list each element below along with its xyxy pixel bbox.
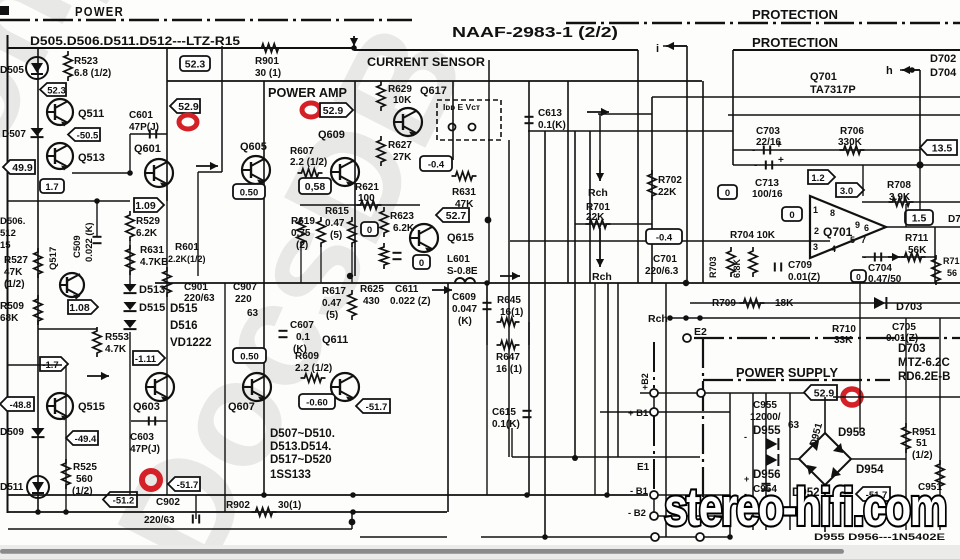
svg-text:(1/2): (1/2) [4, 279, 25, 290]
svg-text:430: 430 [363, 296, 380, 307]
svg-text:R615: R615 [325, 206, 349, 217]
svg-text:0.47/50: 0.47/50 [868, 274, 902, 285]
svg-text:D507: D507 [2, 129, 26, 140]
svg-text:220/63: 220/63 [184, 293, 215, 304]
wire output rail y283 [155, 282, 960, 284]
wire y205 vbe rail [300, 204, 420, 206]
wire vertical x264 [263, 81, 265, 495]
svg-text:i: i [656, 43, 659, 55]
svg-text:220/6.3: 220/6.3 [645, 266, 679, 277]
svg-text:C703: C703 [756, 126, 780, 137]
resistor R951 [902, 423, 910, 453]
svg-text:-0.4: -0.4 [428, 159, 445, 170]
svg-text:- B2: - B2 [628, 508, 646, 519]
wire h stub [900, 69, 920, 71]
svg-text:R601: R601 [175, 242, 199, 253]
wire y537 right [481, 536, 730, 538]
svg-text:47K: 47K [455, 199, 474, 210]
junction 912,70 [909, 67, 915, 73]
wire vertical x618 [617, 283, 619, 457]
svg-text:0.75: 0.75 [291, 228, 311, 239]
terminal 700,537 [696, 533, 704, 541]
svg-text:Q603: Q603 [133, 401, 160, 413]
wire protection y97 [652, 96, 960, 98]
flag -51.7 mid [356, 399, 390, 413]
flag 1.08 [68, 300, 98, 314]
wire y303 [690, 302, 960, 304]
flag 49.9 [3, 160, 35, 174]
capacitor C615 [523, 411, 532, 417]
transistor Q609 body [331, 158, 359, 187]
transistor Q617 [394, 108, 422, 137]
svg-text:560: 560 [76, 474, 93, 485]
wire x593 v [594, 283, 596, 495]
flag 0 e [851, 270, 866, 282]
wire x654 [653, 397, 655, 408]
resistor R525 [62, 459, 70, 489]
flag 1.5 [905, 210, 933, 225]
wire opamp out [886, 226, 960, 228]
wire x906 v [905, 204, 907, 227]
capacitor C509 [93, 237, 102, 243]
diode D515 [124, 302, 137, 311]
transistor Q605 [242, 156, 270, 185]
wire vertical x167 [166, 48, 168, 201]
flag 0.50 [233, 348, 266, 363]
svg-text:4.7KB: 4.7KB [140, 257, 168, 268]
svg-text:C611: C611 [395, 284, 419, 295]
wire x321 column [320, 246, 322, 283]
resistor R509 body [34, 295, 42, 325]
red mark 4 [843, 389, 861, 405]
wire top rail right [354, 49, 638, 51]
capacitor C611 body [393, 253, 402, 259]
svg-text:0.1(K): 0.1(K) [538, 120, 566, 131]
wire x167 column [166, 190, 168, 495]
svg-text:-: - [744, 432, 747, 442]
wire y495 right [658, 494, 730, 496]
wire y457 [512, 456, 700, 458]
resistor R625 body [380, 243, 388, 269]
arrow right mid [587, 108, 609, 116]
junction 527,495 [524, 492, 530, 498]
red mark 1 [179, 115, 197, 129]
wire y397 right [833, 396, 960, 398]
wire rch a stub [599, 114, 601, 160]
wire y516 [658, 515, 730, 517]
wire protection y114 left [598, 113, 652, 115]
wire x935 stub [934, 227, 936, 283]
wire vertical x489 [488, 60, 490, 283]
svg-text:-1.11: -1.11 [135, 354, 157, 365]
svg-text:Iᴅᴅ E Vᴄᴛ: Iᴅᴅ E Vᴄᴛ [443, 102, 480, 112]
svg-text:-: - [863, 252, 866, 263]
svg-text:15: 15 [0, 240, 11, 251]
flag -0.4 b [646, 229, 682, 244]
flag -1.11 [133, 351, 165, 365]
svg-text:6.8 (1/2): 6.8 (1/2) [74, 68, 111, 79]
svg-text:R529: R529 [136, 216, 160, 227]
wire jog [351, 512, 353, 529]
wire x790 supply [789, 393, 791, 530]
svg-text:-48.8: -48.8 [10, 400, 32, 411]
junction 686,283 [683, 280, 689, 286]
svg-text:68K: 68K [0, 313, 19, 324]
resistor R901 [258, 44, 283, 52]
wire x512 jog [511, 428, 513, 457]
svg-text:D515: D515 [170, 303, 198, 315]
svg-text:(K): (K) [458, 316, 472, 327]
wire y537 stub [360, 536, 447, 538]
svg-text:Q607: Q607 [228, 401, 255, 413]
svg-text:Q701: Q701 [810, 71, 837, 83]
diode D509 [32, 428, 45, 437]
resistor R621 [357, 201, 382, 209]
svg-text:R710: R710 [832, 324, 856, 335]
flag 52.3 [40, 83, 66, 96]
svg-text:R702: R702 [658, 175, 682, 186]
resistor R553 [93, 327, 101, 357]
svg-text:52.9: 52.9 [814, 387, 835, 399]
svg-text:POWER AMP: POWER AMP [268, 86, 347, 100]
op-amp U Q701 [810, 196, 886, 258]
svg-text:D513.D514.: D513.D514. [270, 441, 331, 453]
capacitor C713 [766, 161, 772, 170]
junction 920,165 [916, 161, 923, 168]
flag 52.9 pa [320, 103, 353, 117]
wire vertical x453 [452, 81, 454, 160]
svg-text:1SS133: 1SS133 [270, 469, 311, 481]
resistor R645 [497, 318, 520, 326]
svg-text:L601: L601 [447, 254, 470, 265]
junction 264,495 [261, 492, 267, 498]
svg-text:0.47: 0.47 [322, 298, 342, 309]
svg-text:6.2K: 6.2K [136, 228, 158, 239]
svg-text:+: + [778, 155, 784, 166]
svg-text:R553: R553 [105, 332, 129, 343]
svg-text:R71: R71 [943, 256, 960, 266]
wire x352 column [351, 246, 353, 283]
wire bridge top stub [824, 397, 826, 433]
svg-text:3: 3 [813, 242, 818, 252]
wire vertical x687 [686, 46, 688, 283]
border chain line top-left [0, 19, 412, 22]
decor corner mark [0, 6, 9, 15]
flag -49.4 [66, 431, 98, 445]
svg-text:D505: D505 [0, 65, 24, 76]
wire top rail [8, 47, 354, 49]
chain x654 +B2 stub [653, 342, 655, 388]
diode D511 [27, 476, 49, 498]
transistor Q517 [60, 273, 84, 300]
resistor R629 [377, 81, 385, 111]
wire vertical x509 [508, 140, 510, 457]
flag 0 a [361, 222, 378, 236]
svg-text:52.3: 52.3 [185, 58, 206, 70]
resistor R708 [889, 198, 914, 206]
wire vertical x608 [607, 283, 609, 495]
arrow rch b [596, 228, 604, 267]
svg-text:63: 63 [247, 308, 259, 319]
svg-text:C613: C613 [538, 108, 562, 119]
wire y241 r704 [510, 240, 830, 242]
wire x940 supply [939, 318, 941, 530]
resistor R701 [586, 220, 611, 228]
junction 353,512 [350, 509, 356, 515]
resistor R619 [297, 217, 305, 247]
svg-text:D513: D513 [139, 284, 165, 296]
wire x906 supply [905, 318, 907, 530]
flag 1.7 [40, 179, 64, 193]
resistor R609 [301, 374, 326, 382]
svg-text:R631: R631 [140, 245, 164, 256]
svg-text:R621: R621 [355, 182, 379, 193]
junction 354,48 [351, 45, 357, 51]
svg-text:51: 51 [916, 438, 928, 449]
capacitor C613 [525, 117, 534, 123]
wire x130 diode column [129, 240, 131, 284]
diode D955 body2 [766, 454, 778, 466]
svg-text:1: 1 [813, 205, 818, 215]
svg-text:+ B1: + B1 [628, 408, 649, 419]
wire x860 supply [859, 283, 861, 433]
resistor R702 [648, 170, 656, 200]
junction 97,201 [94, 198, 100, 204]
svg-text:NAAF-2983-1 (2/2): NAAF-2983-1 (2/2) [452, 25, 618, 41]
flag -50.5 [68, 128, 100, 141]
wire protection y115 [728, 114, 960, 116]
wire y495 bottom rail [8, 494, 648, 496]
svg-text:C704: C704 [868, 263, 892, 274]
svg-text:512: 512 [0, 228, 16, 239]
svg-text:2.2 (1/2): 2.2 (1/2) [295, 363, 332, 374]
wire x730 supply [729, 393, 731, 537]
wire x666 [665, 283, 667, 537]
svg-text:C607: C607 [290, 320, 314, 331]
arrow c611 [432, 286, 452, 294]
flag 3.0 [836, 183, 864, 197]
svg-text:R627: R627 [388, 140, 412, 151]
svg-text:D703: D703 [896, 301, 922, 313]
svg-text:4: 4 [831, 244, 836, 254]
wire x301 column [300, 246, 302, 283]
wire vertical x529 sensor [528, 81, 530, 495]
resistor R953 [936, 460, 944, 490]
svg-text:0: 0 [789, 210, 794, 221]
svg-text:(5): (5) [330, 230, 342, 241]
red mark 3 [302, 103, 320, 117]
wire x225 column [224, 283, 226, 512]
resistor R712 [932, 255, 940, 285]
svg-text:Q615: Q615 [447, 232, 474, 244]
arrow to h [902, 66, 920, 74]
wire c703 rail [733, 149, 920, 151]
junction 66,512 [63, 509, 69, 515]
svg-text:56: 56 [947, 268, 957, 278]
svg-text:PROTECTION: PROTECTION [752, 36, 838, 50]
svg-text:R629: R629 [388, 84, 412, 95]
arrow signal [196, 162, 218, 170]
wire vertical x703 protection left [702, 81, 704, 283]
wire x487 down [486, 283, 488, 495]
flag 52.9 [170, 99, 200, 113]
svg-text:E1: E1 [637, 462, 650, 473]
wire q601 base feed [72, 172, 130, 174]
svg-text:0.50: 0.50 [240, 351, 259, 362]
arrow signal2 [87, 372, 109, 380]
capacitor C902 [193, 515, 199, 524]
transistor Q607 [243, 373, 271, 402]
decor bottom bar [0, 545, 960, 559]
wire x920 v2 [919, 165, 921, 210]
svg-text:Rch: Rch [588, 187, 608, 199]
resistor R529 [126, 211, 134, 241]
flag -0.60 [299, 394, 335, 409]
wire left border vertical [7, 35, 9, 513]
flag 0 d [718, 185, 737, 199]
svg-text:D511: D511 [0, 482, 24, 493]
svg-text:D702: D702 [930, 53, 956, 65]
svg-text:Q513: Q513 [78, 152, 105, 164]
svg-text:- B1: - B1 [630, 486, 649, 497]
terminal E2 [683, 334, 691, 342]
flag 52.7 [436, 208, 469, 222]
svg-text:C902: C902 [156, 497, 180, 508]
svg-text:1.7: 1.7 [45, 182, 58, 193]
svg-text:-49.4: -49.4 [75, 434, 97, 445]
svg-text:h: h [886, 65, 893, 77]
diode D955 body [766, 438, 778, 450]
svg-text:Q701: Q701 [823, 225, 853, 239]
wire x196 c902 stub [195, 495, 197, 519]
flag 52.9 ps [804, 385, 837, 400]
wire C509 stub [96, 201, 98, 236]
junction 130,173 [127, 170, 133, 176]
svg-text:0.1: 0.1 [296, 332, 310, 343]
wire bridge right stub [851, 458, 906, 460]
transistor Q601 [145, 159, 173, 188]
wire c601 bracket [130, 133, 167, 135]
svg-text:-51.2: -51.2 [113, 495, 135, 506]
arrow rch a [596, 160, 604, 181]
capacitor C601 body [150, 130, 156, 139]
svg-text:PROTECTION: PROTECTION [752, 8, 838, 22]
wire y512 bottom rail2 [8, 511, 447, 513]
wire vertical x638 [637, 50, 639, 283]
svg-text:Q605: Q605 [240, 141, 267, 153]
resistor R705 body [749, 247, 757, 277]
wire c713 rail [733, 164, 960, 166]
wire vertical x568 [567, 81, 569, 283]
resistor R706 [840, 146, 865, 154]
svg-text:C713: C713 [755, 178, 779, 189]
svg-text:-: - [754, 160, 757, 171]
svg-text:+B2: +B2 [640, 373, 650, 390]
wire x198 column [197, 172, 199, 276]
svg-text:R645: R645 [497, 295, 521, 306]
svg-text:0: 0 [856, 272, 861, 282]
decor scrollbar thumb [0, 549, 844, 554]
svg-text:Q601: Q601 [134, 143, 161, 155]
svg-text:(1/2): (1/2) [912, 450, 933, 461]
svg-text:47K: 47K [4, 267, 23, 278]
terminal -B2 [650, 512, 658, 520]
flag -51.7 left [168, 477, 200, 491]
resistor R615 [317, 217, 325, 247]
svg-text:0.022 (Z): 0.022 (Z) [390, 296, 431, 307]
wire vertical x652 [651, 97, 653, 283]
terminal block IDD E VCT [437, 100, 501, 140]
svg-text:R609: R609 [295, 351, 319, 362]
wire vertical x575 [574, 131, 576, 458]
wire vertical x448 [447, 283, 449, 512]
svg-text:0,58: 0,58 [305, 181, 326, 193]
svg-text:D509: D509 [0, 427, 24, 438]
resistor R527 body [34, 248, 42, 278]
red mark 2 [142, 471, 160, 489]
svg-text:22K: 22K [658, 187, 677, 198]
svg-text:16 (1): 16 (1) [496, 364, 522, 375]
svg-text:D955: D955 [753, 425, 781, 437]
svg-text:R706: R706 [840, 126, 864, 137]
wire y318 [686, 317, 960, 319]
svg-text:D953: D953 [838, 427, 866, 439]
svg-text:R623: R623 [390, 211, 414, 222]
svg-text:C955: C955 [753, 400, 777, 411]
border chain line top-right [566, 22, 960, 25]
svg-text:330K: 330K [838, 137, 863, 148]
svg-text:6: 6 [864, 223, 869, 233]
capacitor C954 [762, 484, 771, 490]
svg-text:33K: 33K [834, 335, 853, 346]
svg-text:R711: R711 [905, 233, 929, 244]
flag 0 b [413, 255, 430, 269]
resistor R627 [377, 136, 385, 166]
svg-text:9: 9 [855, 220, 860, 230]
transistor Q615 [410, 224, 438, 253]
svg-text:C509: C509 [72, 235, 83, 258]
svg-text:0.1(K): 0.1(K) [492, 419, 520, 430]
svg-text:52.3: 52.3 [47, 85, 66, 96]
junction 353,495 [350, 492, 356, 498]
diode D513 [124, 284, 137, 293]
svg-text:D506.: D506. [0, 216, 25, 227]
resistor R615b [348, 217, 356, 247]
transistor Q511 [47, 99, 73, 127]
resistor R703 body [727, 247, 735, 277]
wire vertical x590 [589, 131, 591, 283]
capacitor C709 [775, 263, 781, 272]
resistor R631 47K [452, 172, 477, 180]
svg-text:R607: R607 [290, 146, 314, 157]
wire x545 v [544, 131, 546, 537]
svg-text:2.2K(1/2): 2.2K(1/2) [168, 254, 206, 264]
wire x654 c [653, 499, 655, 512]
inductor L601 coil [455, 278, 475, 283]
resistor R623 [380, 207, 388, 237]
chain x654 b [653, 416, 655, 491]
svg-text:-50.5: -50.5 [77, 130, 99, 141]
resistor R647 [497, 341, 520, 349]
transistor Q515 [47, 393, 73, 421]
svg-text:TA7317P: TA7317P [810, 84, 856, 96]
wire y226 [575, 223, 652, 225]
flag 13.5 [920, 140, 957, 155]
resistor R601 [163, 267, 171, 297]
wire rch stub [668, 317, 686, 319]
svg-text:7: 7 [861, 235, 866, 245]
wire x66 column [65, 365, 67, 512]
